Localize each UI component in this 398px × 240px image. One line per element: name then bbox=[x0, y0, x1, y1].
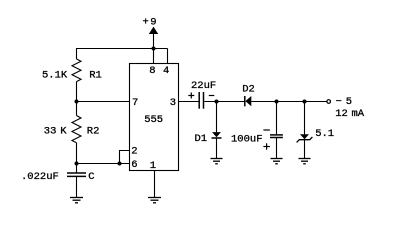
wire 100uF drop bbox=[276, 102, 278, 135]
minus sign 22uF bbox=[209, 95, 215, 97]
svg-text:8: 8 bbox=[149, 65, 155, 77]
wire +9 drop bbox=[153, 34, 155, 49]
wire pin 1 bbox=[154, 171, 156, 198]
node dot bottom left bbox=[75, 162, 79, 166]
svg-text:mA: mA bbox=[352, 108, 365, 120]
svg-text:D2: D2 bbox=[242, 83, 255, 95]
svg-text:−: − bbox=[336, 96, 342, 108]
wire pin 7 bbox=[77, 101, 130, 103]
ground under C bbox=[70, 198, 83, 203]
wire left rail top bbox=[76, 48, 78, 59]
wire R1 to R2 bbox=[76, 82, 78, 116]
svg-text:R2: R2 bbox=[87, 125, 100, 137]
node dot D1 bbox=[215, 100, 219, 104]
wire D1 drop bbox=[216, 102, 218, 133]
wire pin 8 bbox=[153, 49, 155, 64]
wire pin 4 bbox=[167, 49, 169, 64]
node dot top rail bbox=[152, 47, 156, 51]
svg-text:.022uF: .022uF bbox=[21, 171, 59, 183]
svg-text:2: 2 bbox=[131, 145, 137, 157]
diode D2 triangle bbox=[245, 96, 251, 106]
ground under zener bbox=[299, 159, 311, 164]
wire D1 to ground bbox=[216, 138, 218, 159]
diode D1 triangle bbox=[212, 132, 221, 137]
wire pin 2 step bbox=[120, 151, 130, 164]
minus sign 100uF bbox=[263, 129, 270, 131]
wire C to ground bbox=[76, 177, 78, 198]
wire 100uF to ground bbox=[276, 138, 278, 159]
ground under 100uF bbox=[271, 159, 283, 164]
capacitor 22uF plates bbox=[198, 92, 200, 109]
svg-text:100uF: 100uF bbox=[231, 134, 263, 146]
plus sign 100uF bbox=[263, 143, 270, 149]
power arrow +9 bbox=[149, 27, 158, 34]
svg-text:5: 5 bbox=[346, 96, 352, 108]
op-amp U1 555 chip body bbox=[130, 64, 179, 171]
ground under D1 bbox=[211, 159, 223, 164]
svg-text:33: 33 bbox=[44, 125, 57, 137]
svg-text:5.1: 5.1 bbox=[315, 128, 334, 140]
output terminal circle bbox=[327, 100, 331, 104]
wire R2 to bottom node bbox=[76, 143, 78, 173]
ground under pin 1 bbox=[148, 198, 161, 203]
resistor R1 bbox=[72, 59, 81, 82]
wire 22uF to D2 bbox=[204, 101, 244, 103]
node dot R1-R2 bbox=[75, 100, 79, 104]
svg-text:+: + bbox=[143, 17, 149, 29]
wire zener drop bbox=[304, 102, 306, 135]
plus sign 22uF bbox=[188, 93, 194, 99]
svg-text:12: 12 bbox=[335, 108, 348, 120]
zener D3 bar with bent ends bbox=[297, 137, 313, 142]
resistor R2 bbox=[72, 116, 81, 143]
svg-text:C: C bbox=[88, 171, 94, 183]
svg-text:5.1K: 5.1K bbox=[42, 70, 68, 82]
svg-text:D1: D1 bbox=[195, 133, 208, 145]
wire D2 to output bbox=[251, 101, 326, 103]
svg-text:555: 555 bbox=[144, 114, 163, 126]
svg-text:6: 6 bbox=[131, 159, 137, 171]
svg-text:4: 4 bbox=[163, 65, 169, 77]
zener D3 triangle bbox=[300, 134, 309, 139]
svg-text:3: 3 bbox=[170, 97, 176, 109]
wire top rail bbox=[77, 48, 168, 50]
node dot 100uF bbox=[275, 100, 279, 104]
wire pin 3 to 22uF bbox=[179, 101, 199, 103]
svg-text:7: 7 bbox=[132, 97, 138, 109]
capacitor 100uF plates bbox=[270, 134, 283, 136]
wire zener to ground bbox=[304, 140, 306, 159]
capacitor C bbox=[67, 172, 86, 174]
node dot pin2/6 bbox=[118, 162, 122, 166]
node dot zener bbox=[303, 100, 307, 104]
svg-text:22uF: 22uF bbox=[191, 80, 216, 92]
svg-text:1: 1 bbox=[150, 160, 156, 172]
wire bottom node bbox=[77, 163, 130, 165]
svg-text:9: 9 bbox=[150, 17, 156, 29]
svg-text:K: K bbox=[60, 125, 67, 137]
diode D2 cathode bar bbox=[244, 96, 246, 106]
svg-text:R1: R1 bbox=[89, 70, 102, 82]
diode D1 cathode bar bbox=[212, 137, 222, 139]
